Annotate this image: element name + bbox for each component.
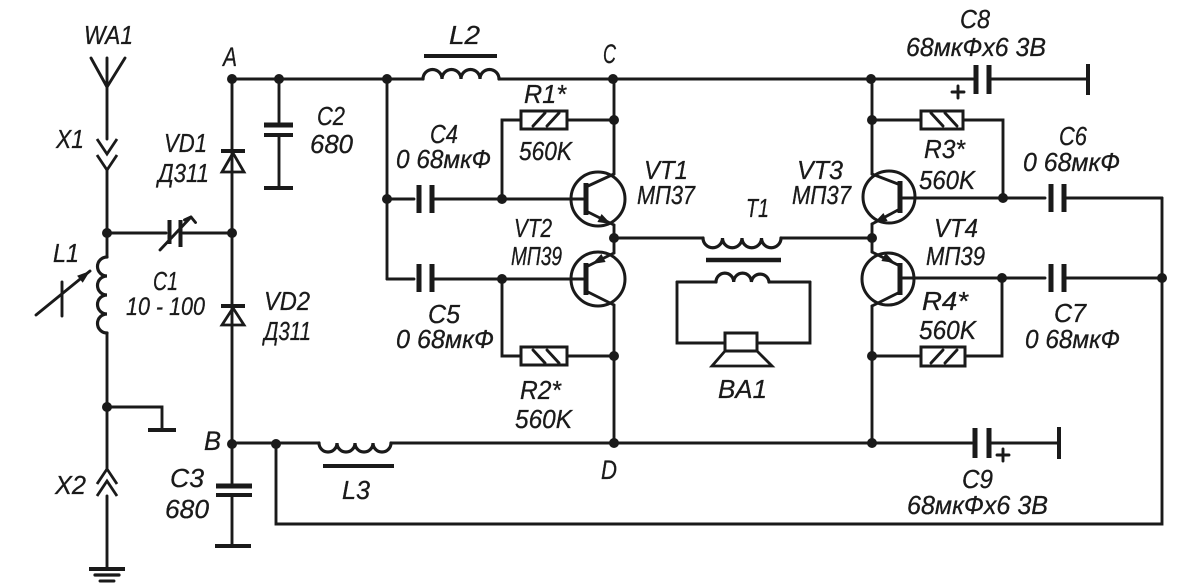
svg-text:R3*: R3*	[924, 134, 966, 164]
svg-text:680: 680	[165, 494, 210, 524]
svg-text:R2*: R2*	[520, 375, 562, 405]
wire VD2 to node B	[231, 306, 234, 444]
svg-text:0 68мкФ: 0 68мкФ	[1025, 324, 1120, 354]
capacitor C2 680	[264, 79, 354, 188]
wire A to VD1	[231, 79, 234, 151]
wire B to C3	[231, 444, 234, 484]
connector X1	[55, 124, 117, 170]
node C	[603, 39, 618, 84]
svg-text:L3: L3	[342, 475, 371, 505]
svg-text:R4*: R4*	[922, 286, 969, 316]
svg-text:10 - 100: 10 - 100	[126, 293, 205, 321]
wire C7 right lead	[1066, 277, 1162, 280]
wire R2 right lead	[567, 355, 614, 358]
svg-text:WA1: WA1	[84, 20, 133, 50]
wire D to right	[614, 442, 872, 445]
resistor R1* 560K	[519, 79, 573, 166]
svg-text:МП39: МП39	[511, 241, 562, 271]
svg-text:VT4: VT4	[934, 213, 978, 243]
node A	[221, 42, 237, 84]
node D	[601, 438, 619, 485]
wire C6 left lead	[1003, 197, 1045, 200]
transformer T1 core	[706, 258, 781, 263]
wire junction to VD2	[231, 233, 234, 306]
transistor VT4 МП39	[862, 213, 985, 306]
svg-text:560K: 560K	[515, 404, 574, 434]
svg-text:C8: C8	[960, 4, 990, 34]
wire L3 to node D	[391, 442, 614, 445]
svg-text:0 68мкФ: 0 68мкФ	[396, 324, 494, 354]
resistor R4* 560K	[919, 286, 978, 366]
svg-text:68мкФх6 3В: 68мкФх6 3В	[906, 32, 1046, 62]
ground	[89, 569, 125, 581]
junction C7/right bus	[1157, 273, 1167, 283]
capacitor C7 0,68мкФ	[1025, 264, 1120, 354]
wire top bus A to C2	[232, 78, 279, 81]
junction C1/VD line	[227, 228, 237, 238]
svg-text:BA1: BA1	[718, 374, 767, 404]
capacitor C4 0,68мкФ	[396, 119, 491, 213]
wire VT4 base lead	[902, 277, 1002, 280]
junction C2 top	[274, 74, 284, 84]
wire secondary loop	[677, 282, 810, 343]
chassis stub wire	[107, 407, 162, 429]
capacitor C9 68мкФх6 3В	[907, 427, 1059, 520]
chassis bar	[148, 428, 176, 432]
wire R3 left lead	[872, 119, 921, 122]
resistor R3* 560K	[919, 111, 977, 195]
junction C9 left	[867, 438, 877, 448]
svg-text:560K: 560K	[919, 315, 978, 345]
svg-text:Д311: Д311	[155, 158, 209, 188]
wire X2 to ground	[106, 496, 109, 569]
junction R4 left	[867, 351, 877, 361]
svg-text:L2: L2	[449, 20, 481, 50]
svg-text:VD1: VD1	[164, 128, 207, 158]
wire VT1 emitter down	[613, 225, 616, 238]
wire C1 right lead	[183, 232, 232, 235]
diode VD1 Д311	[155, 128, 245, 188]
wire bottom bus	[276, 198, 1162, 524]
inductor L1 (variable)	[36, 233, 107, 333]
junction VT3 collector branch	[866, 74, 876, 84]
svg-text:X2: X2	[54, 470, 86, 500]
junction antenna/L1/C1	[102, 228, 112, 238]
wire VT3 base lead	[902, 197, 1003, 200]
wire C1 left lead	[107, 232, 166, 235]
junction bottom-left riser	[271, 439, 281, 449]
junction VT1 base / R1	[497, 194, 507, 204]
wire VT2 base lead	[502, 278, 583, 281]
wire R4 right riser	[967, 278, 1002, 356]
wire R1 right lead	[567, 119, 614, 122]
wire R1 left riser	[502, 120, 521, 199]
inductor L2	[423, 20, 499, 79]
transformer T1 secondary	[677, 273, 810, 282]
wire to C8	[871, 78, 973, 81]
junction VT2 base / R2	[497, 274, 507, 284]
junction VT3/VT4 emitters	[867, 233, 877, 243]
junction C4 left	[382, 194, 392, 204]
wire top bus C2 to L2	[279, 78, 423, 81]
junction R2 right	[609, 351, 619, 361]
wire VT3 collector riser	[871, 79, 874, 174]
wire VT3 emitter down	[871, 224, 874, 238]
svg-text:D: D	[601, 455, 617, 485]
diode VD2 Д311	[221, 286, 311, 346]
svg-text:T1: T1	[746, 193, 769, 223]
capacitor C8 68мкФх6 3В	[906, 4, 1088, 98]
svg-text:560K: 560K	[919, 165, 977, 195]
wire VT1 collector to node C	[613, 79, 616, 174]
svg-text:МП39: МП39	[926, 241, 985, 271]
speaker BA1	[712, 333, 772, 404]
svg-text:560K: 560K	[519, 136, 573, 166]
svg-text:Д311: Д311	[262, 316, 311, 346]
svg-text:68мкФх6 3В: 68мкФх6 3В	[907, 490, 1048, 520]
wire T1 to right emitters	[781, 237, 872, 240]
wire antenna to X1	[106, 87, 109, 139]
junction C6 left	[998, 193, 1008, 203]
wire L1 to lower junction	[106, 333, 109, 407]
wire VT2 collector to node D	[613, 356, 616, 443]
wire C5 left corner	[387, 278, 414, 281]
node B	[204, 426, 237, 456]
svg-text:C3: C3	[170, 463, 205, 493]
wire C4 to VT1 base node	[434, 198, 502, 201]
svg-text:R1*: R1*	[524, 79, 567, 109]
junction L1/chassis/X2	[102, 402, 112, 412]
wire junction to X2	[106, 407, 109, 468]
wire L2 to node C	[499, 78, 613, 81]
wire VT2 emitter up	[613, 238, 616, 253]
svg-text:МП37: МП37	[637, 180, 696, 210]
capacitor C3 680	[165, 463, 252, 546]
junction C4/C5 branch	[382, 74, 392, 84]
capacitor C6 0,68мкФ	[1023, 121, 1120, 212]
svg-text:0 68мкФ: 0 68мкФ	[396, 144, 491, 174]
svg-text:VT2: VT2	[514, 213, 552, 243]
capacitor C5 0,68мкФ	[396, 264, 494, 354]
inductor L3	[319, 443, 394, 505]
transistor VT2 МП39	[511, 213, 625, 306]
wire VT4 emitter up	[871, 238, 874, 252]
wire VT4 collector to D bus	[871, 356, 874, 443]
transistor VT3 МП37	[792, 155, 915, 224]
transistor VT1 МП37	[571, 155, 696, 226]
svg-text:X1: X1	[55, 124, 84, 154]
wire C6 right lead	[1066, 197, 1162, 200]
wire VT2 collector down	[613, 305, 616, 356]
wire C4 left lead	[387, 198, 414, 201]
svg-text:VD2: VD2	[264, 286, 310, 316]
wire C9 left lead	[872, 442, 972, 445]
wire X1 to node L1-top	[106, 170, 109, 233]
junction VT1/VT2 emitters	[609, 233, 619, 243]
svg-text:C: C	[603, 39, 616, 69]
svg-text:A: A	[221, 42, 237, 72]
wire R3 right lead	[963, 120, 1003, 198]
junction R3 left	[867, 115, 877, 125]
wire VT4 collector down	[871, 306, 874, 356]
wire VT1 base lead	[502, 198, 583, 201]
junction C7 left	[997, 273, 1007, 283]
wire R4 left lead	[872, 355, 919, 358]
svg-text:0 68мкФ: 0 68мкФ	[1023, 147, 1120, 177]
capacitor C1 (variable)	[126, 217, 205, 321]
wire VD1 to C1 junction	[231, 151, 234, 233]
wire node C to C8 branch	[613, 78, 871, 81]
wire emitters to T1	[614, 237, 703, 240]
resistor R2* 560K	[515, 347, 574, 434]
svg-text:C1: C1	[153, 266, 178, 296]
wire R2 left riser	[502, 279, 521, 356]
wire C7 left lead	[1002, 277, 1045, 280]
svg-text:L1: L1	[53, 238, 79, 268]
svg-text:680: 680	[310, 129, 354, 159]
wire C5 to VT2 base node	[434, 278, 502, 281]
junction R1/VT1 collector	[609, 115, 619, 125]
wire C4/C5 branch vertical	[386, 79, 389, 279]
svg-text:МП37: МП37	[792, 180, 852, 210]
svg-text:C2: C2	[317, 101, 345, 131]
svg-text:B: B	[204, 426, 221, 456]
transformer T1 primary	[703, 193, 781, 248]
antenna WA1	[84, 20, 133, 87]
connector X2	[54, 469, 117, 500]
wire B-D bus	[232, 442, 319, 445]
